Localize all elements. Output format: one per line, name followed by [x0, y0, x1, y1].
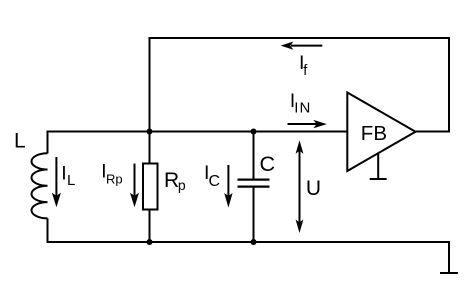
wire capacitor bottom lead	[253, 188, 255, 243]
inductor L coil	[31, 153, 47, 218]
capacitor C plates	[238, 180, 270, 187]
arrow U double	[296, 140, 304, 233]
wire top feedback	[150, 37, 450, 39]
wire left feedback vertical	[149, 37, 151, 132]
arrow IL	[52, 157, 61, 207]
arrow IIN	[288, 120, 327, 128]
ground under FB stub	[377, 153, 379, 179]
wire resistor top lead	[149, 132, 151, 164]
ground under FB bar	[370, 178, 387, 180]
node C bottom-left junction	[147, 239, 153, 245]
wire capacitor top lead	[253, 132, 255, 179]
resistor Rp body	[143, 164, 158, 210]
wire main bus	[48, 131, 348, 133]
svg-text:U: U	[306, 177, 321, 200]
svg-text:f: f	[303, 63, 308, 79]
node A top-left junction	[147, 129, 153, 135]
svg-text:R: R	[164, 169, 179, 192]
wire bottom bus	[47, 241, 451, 243]
svg-text:FB: FB	[361, 122, 387, 145]
svg-text:C: C	[260, 152, 276, 176]
arrow IC	[224, 165, 232, 208]
wire right feedback vertical	[448, 37, 450, 133]
svg-text:IN: IN	[294, 100, 311, 117]
op-amp FB triangle	[347, 93, 415, 172]
svg-text:p: p	[178, 177, 186, 193]
wire FB output	[416, 131, 451, 133]
wire inductor bottom lead	[47, 218, 49, 243]
svg-text:L: L	[14, 130, 26, 153]
node D bottom capacitor junction	[251, 239, 257, 245]
wire inductor top lead	[47, 131, 49, 154]
arrow If	[281, 42, 323, 50]
ground right	[440, 272, 458, 274]
arrow IRp	[130, 164, 139, 208]
svg-text:C: C	[209, 173, 221, 190]
svg-text:L: L	[67, 172, 75, 189]
svg-text:Rp: Rp	[106, 171, 123, 186]
svg-text:I: I	[61, 163, 66, 185]
node B top capacitor junction	[251, 129, 257, 135]
wire resistor bottom lead	[149, 210, 151, 242]
wire right vertical to ground	[448, 241, 450, 273]
